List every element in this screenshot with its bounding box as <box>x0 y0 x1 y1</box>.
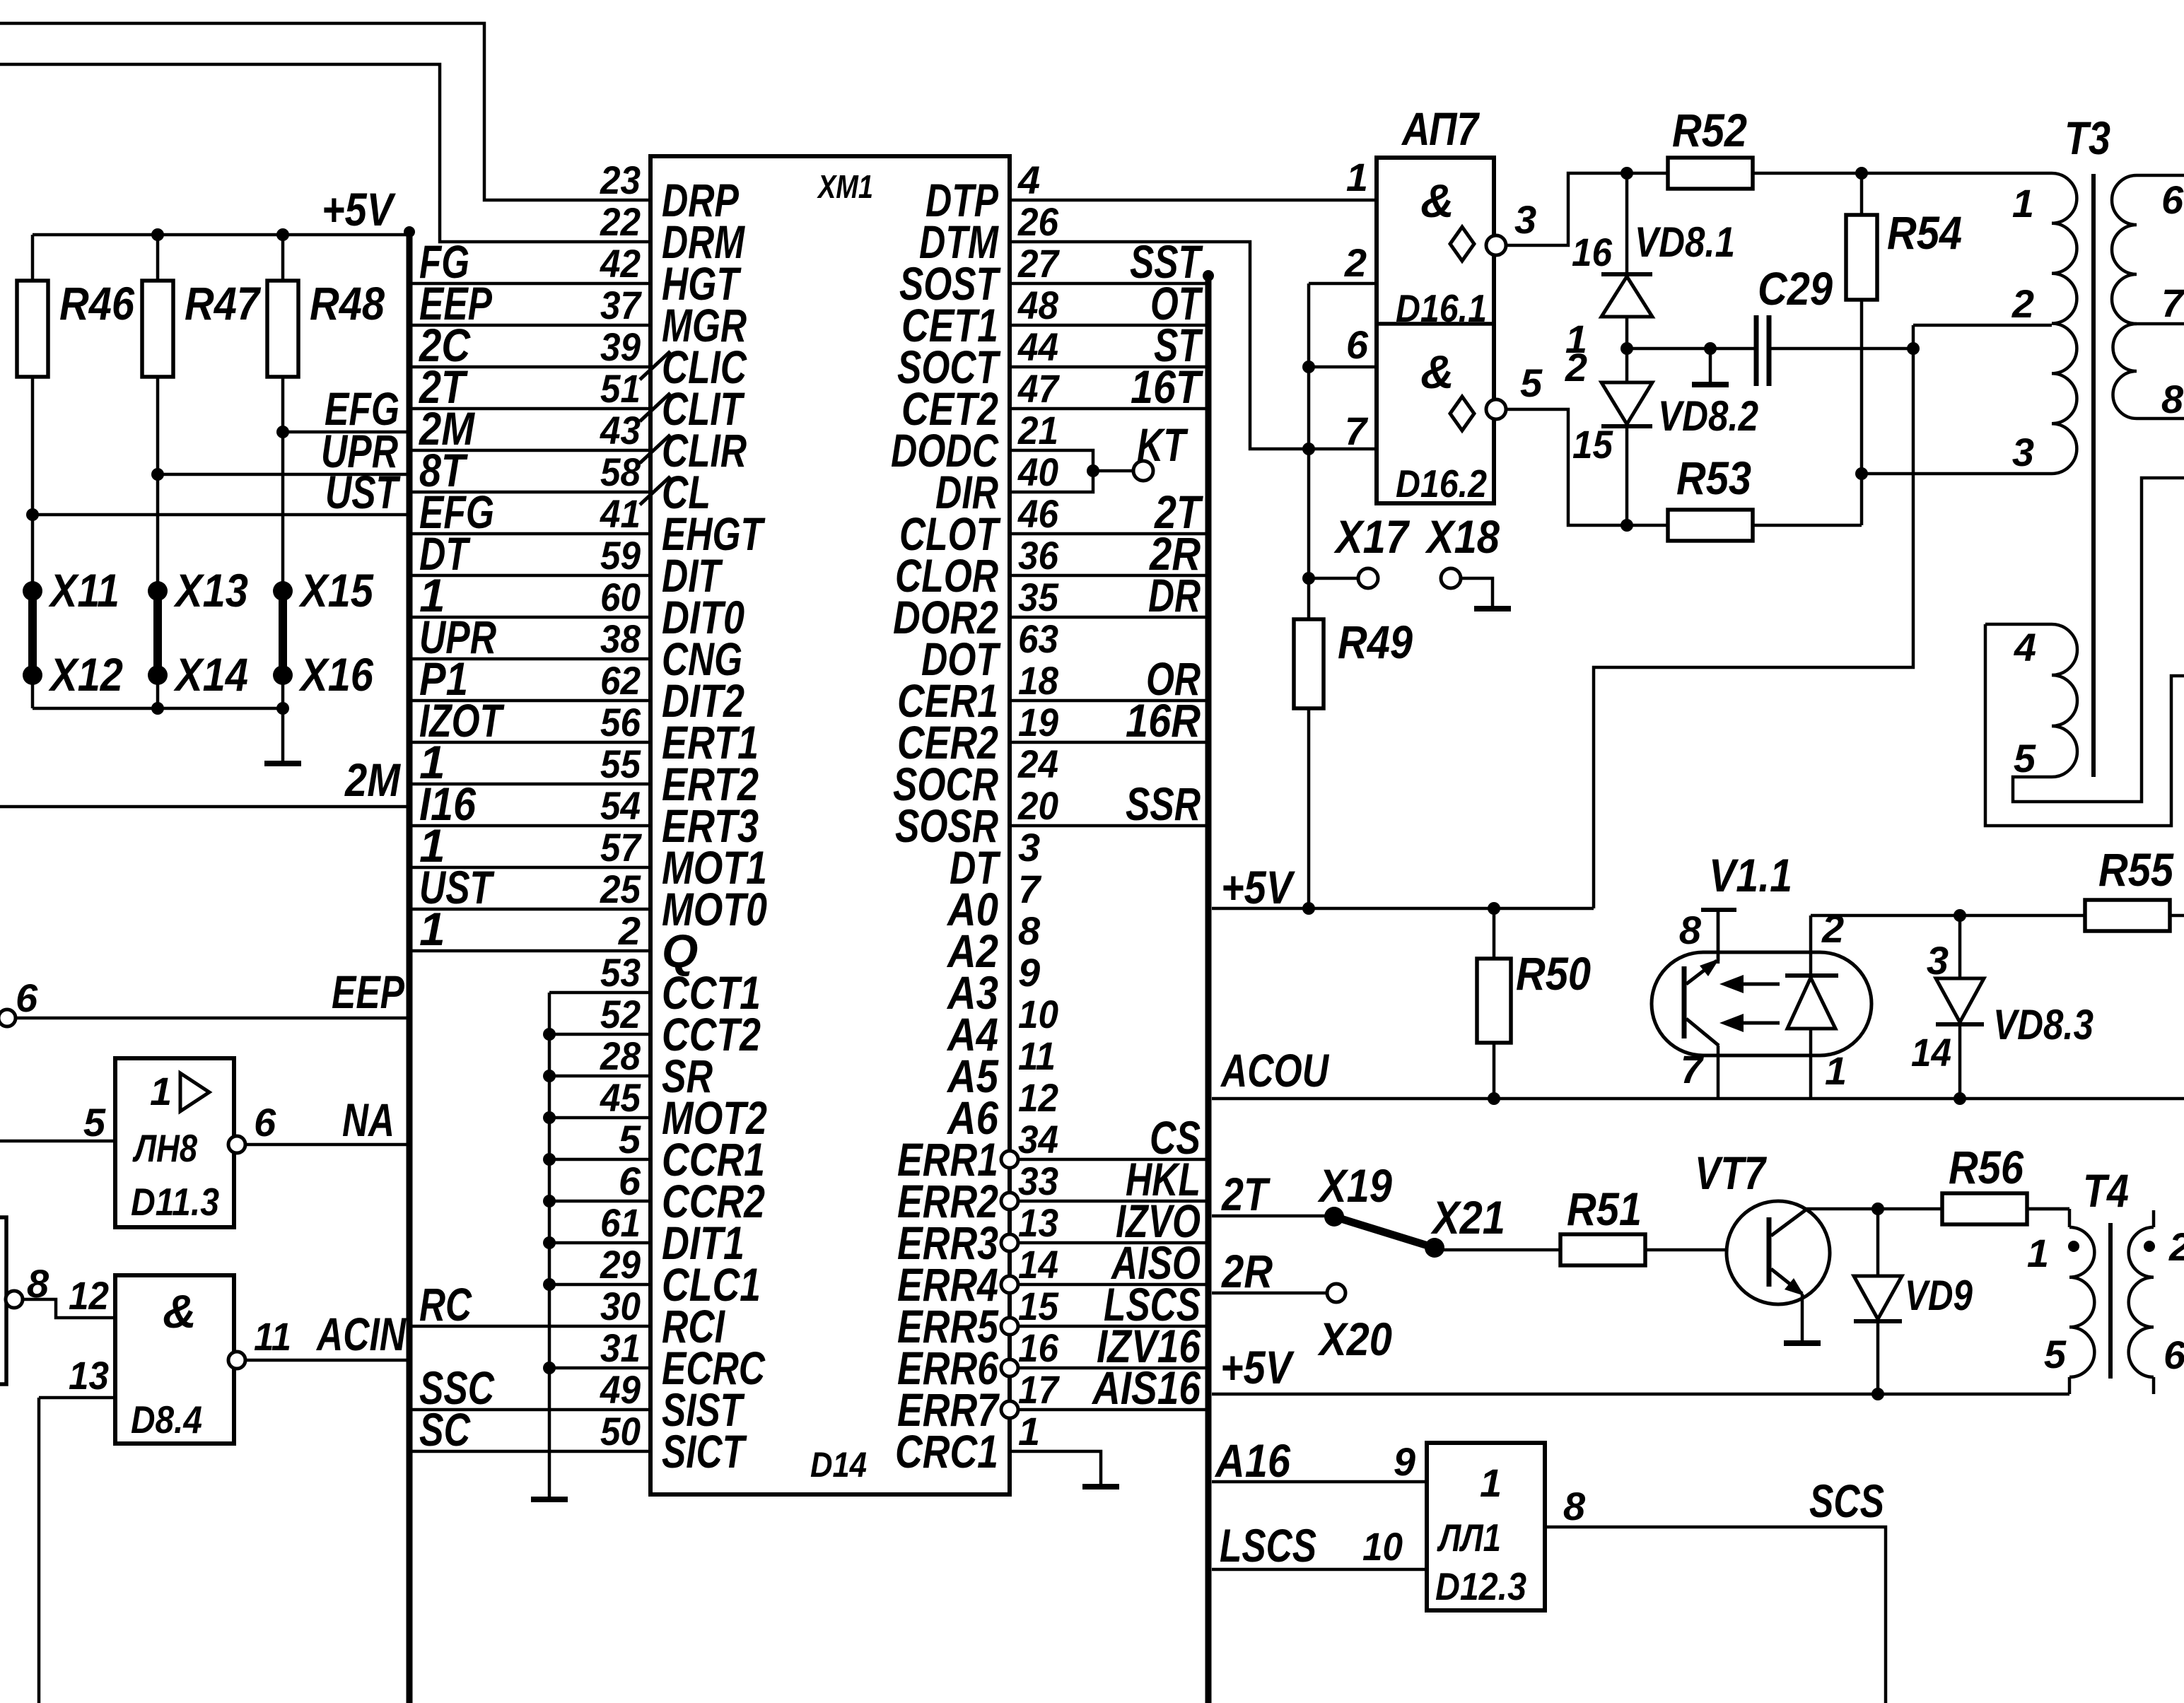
svg-text:19: 19 <box>1018 700 1058 744</box>
svg-text:21: 21 <box>1017 408 1058 452</box>
wire VT7 emitter to ground <box>1801 1294 1804 1341</box>
T3 winding 4-5 <box>1985 623 2052 626</box>
wire to R51 <box>1435 1248 1560 1252</box>
svg-text:26: 26 <box>1017 199 1059 244</box>
svg-text:1: 1 <box>1018 1409 1040 1453</box>
T4 core <box>2108 1223 2113 1379</box>
svg-text:28: 28 <box>600 1034 641 1078</box>
output circle D16.2 pin5 <box>1486 399 1506 419</box>
svg-text:R55: R55 <box>2098 843 2174 896</box>
svg-text:39: 39 <box>600 324 641 369</box>
svg-text:7: 7 <box>1345 409 1369 453</box>
switch lever X19-X21 <box>1334 1217 1435 1248</box>
svg-text:48: 48 <box>1017 283 1059 327</box>
svg-text:29: 29 <box>600 1242 641 1287</box>
svg-text:АП7: АП7 <box>1401 103 1480 155</box>
wire ERR1 row 34 to bus <box>1018 1158 1205 1161</box>
right bus <box>1205 272 1212 1703</box>
svg-text:D16.2: D16.2 <box>1396 462 1487 505</box>
svg-text:22: 22 <box>600 199 641 244</box>
ground at C29 node <box>1709 349 1712 382</box>
svg-text:R52: R52 <box>1672 104 1747 156</box>
wire D16.2 pin6 <box>1309 365 1377 369</box>
svg-text:2M: 2M <box>344 754 401 806</box>
svg-text:9: 9 <box>1394 1439 1415 1484</box>
jumper pin X19 <box>1324 1207 1344 1227</box>
svg-text:11: 11 <box>254 1314 291 1359</box>
wire R49 to +5V rail <box>1307 708 1311 908</box>
wire jumper bottoms <box>31 675 35 708</box>
svg-text:27: 27 <box>1017 241 1061 286</box>
junction <box>543 1195 556 1207</box>
wire ERR2 row 33 to bus <box>1018 1200 1205 1203</box>
wire row 49 from bus <box>412 1408 650 1412</box>
vertical net pin2/pin6/pin7/X17/R49 <box>1307 283 1311 619</box>
wire +5V rail <box>33 233 409 237</box>
svg-text:ЛН8: ЛН8 <box>132 1126 198 1170</box>
svg-text:6: 6 <box>2163 1333 2184 1377</box>
open pin X20 <box>1327 1284 1345 1302</box>
svg-text:3: 3 <box>1927 938 1949 983</box>
svg-text:2: 2 <box>1821 906 1844 951</box>
svg-text:46: 46 <box>1017 491 1059 536</box>
wire R47 lower <box>156 377 160 591</box>
wire row 35 to bus <box>1010 616 1205 619</box>
svg-text:5: 5 <box>1520 361 1543 405</box>
wire DTP row to D16.1 pin1 <box>1010 199 1377 202</box>
wire row 25 from bus <box>412 908 650 911</box>
connector pin 6 EEP <box>0 1009 16 1026</box>
inversion slash <box>640 351 670 380</box>
svg-text:49: 49 <box>600 1367 641 1412</box>
svg-text:T3: T3 <box>2065 112 2110 164</box>
wire 2T from bus <box>1212 1215 1334 1218</box>
wire ERR3 row 13 to bus <box>1018 1241 1205 1245</box>
T3 core <box>2091 174 2096 777</box>
svg-text:58: 58 <box>600 450 641 494</box>
svg-text:V1.1: V1.1 <box>1709 849 1792 901</box>
svg-text:X17: X17 <box>1333 510 1410 563</box>
wire row 52 short <box>549 1033 650 1036</box>
inversion circle ERR4 <box>1001 1276 1018 1293</box>
wire row 51 from bus <box>412 407 650 411</box>
svg-text:KT: KT <box>1137 419 1189 471</box>
wire row 42 from bus <box>412 282 650 286</box>
diode VD8.1 <box>1625 173 1629 274</box>
wire row 43 from bus <box>412 449 650 452</box>
output circle D8.4 pin 11 <box>228 1352 245 1369</box>
wire ERR7 row 17 to bus <box>1018 1408 1205 1412</box>
svg-text:R50: R50 <box>1516 947 1591 1000</box>
svg-text:R51: R51 <box>1567 1183 1642 1235</box>
svg-text:X18: X18 <box>1424 510 1500 563</box>
wire row 57 from bus <box>412 866 650 870</box>
junction <box>1621 167 1633 180</box>
svg-text:1: 1 <box>2027 1231 2049 1275</box>
junction <box>1871 1388 1884 1400</box>
svg-text:6: 6 <box>619 1159 641 1203</box>
svg-text:R46: R46 <box>59 277 135 329</box>
wire pin 13 <box>39 1396 115 1400</box>
svg-text:23: 23 <box>600 158 641 202</box>
svg-text:SSR: SSR <box>1126 778 1201 830</box>
junction <box>1954 1092 1966 1105</box>
inversion slash <box>640 393 670 421</box>
wire pin 8 to pin 12 <box>23 1299 115 1318</box>
junction <box>1871 1202 1884 1215</box>
wire A16 from bus <box>1212 1480 1427 1484</box>
inversion circle ERR7 <box>1001 1401 1018 1418</box>
svg-text:24: 24 <box>1017 742 1058 786</box>
junction <box>1855 467 1868 480</box>
svg-text:3: 3 <box>1514 197 1536 242</box>
svg-text:&: & <box>1420 175 1454 227</box>
wire up to pin3 node <box>1860 474 1864 525</box>
svg-text:40: 40 <box>1017 450 1058 494</box>
wire T3 pin6 <box>2137 174 2184 177</box>
svg-text:UST: UST <box>325 466 401 518</box>
svg-text:ACOU: ACOU <box>1220 1044 1329 1096</box>
svg-text:14: 14 <box>1911 1030 1951 1075</box>
wire R48 lower <box>281 377 285 591</box>
inversion slash <box>640 476 670 505</box>
svg-text:45: 45 <box>600 1075 641 1120</box>
wire R53 right <box>1753 524 1862 527</box>
svg-text:NA: NA <box>342 1094 395 1146</box>
junction <box>1907 342 1920 355</box>
svg-text:R47: R47 <box>185 277 262 329</box>
svg-text:R54: R54 <box>1887 206 1962 259</box>
svg-text:3: 3 <box>1018 825 1040 870</box>
svg-text:X12: X12 <box>47 648 123 701</box>
capacitor C29 <box>1754 315 1759 386</box>
svg-text:X21: X21 <box>1430 1191 1505 1243</box>
svg-text:56: 56 <box>600 700 641 744</box>
+5V terminal tick for pin 8 <box>1701 908 1736 912</box>
svg-text:D16.1: D16.1 <box>1396 286 1487 330</box>
svg-text:11: 11 <box>1018 1034 1056 1078</box>
svg-text:EEP: EEP <box>332 966 405 1018</box>
wire LSCS from bus <box>1212 1568 1427 1572</box>
junction <box>276 228 289 241</box>
transistor VT7 <box>1727 1201 1830 1304</box>
resistor R56 <box>1942 1193 2027 1224</box>
svg-text:1: 1 <box>1480 1461 1502 1505</box>
wire +5V from bus <box>1212 907 1594 911</box>
jumper pin X21 <box>1425 1238 1444 1258</box>
svg-text:VD9: VD9 <box>1905 1272 1973 1319</box>
svg-text:R48: R48 <box>310 277 385 329</box>
junction <box>1488 902 1500 915</box>
wire row 30 from bus <box>412 1325 650 1328</box>
svg-text:61: 61 <box>600 1200 641 1245</box>
jumper X15-X16 <box>273 581 293 601</box>
wire NA to bus <box>245 1143 409 1147</box>
svg-text:54: 54 <box>600 783 641 828</box>
junction <box>543 1028 556 1041</box>
wire EFG to bus <box>283 431 409 434</box>
gate D16.1/D16.2 body <box>1377 158 1494 503</box>
junction <box>543 1111 556 1124</box>
wire mid node to C29 <box>1627 347 1756 351</box>
svg-text:1: 1 <box>1825 1048 1847 1093</box>
wire R51 to VT7 base <box>1645 1248 1766 1252</box>
svg-text:63: 63 <box>1018 616 1058 661</box>
svg-text:43: 43 <box>600 408 641 452</box>
resistor R49 <box>1294 619 1324 708</box>
svg-text:DR: DR <box>1148 569 1201 621</box>
svg-text:2T: 2T <box>1220 1168 1271 1220</box>
resistor R52 <box>1668 158 1753 189</box>
svg-text:X20: X20 <box>1316 1313 1392 1365</box>
wire row 38 from bus <box>412 657 650 661</box>
svg-text:1: 1 <box>1346 155 1368 199</box>
svg-text:2: 2 <box>618 908 641 953</box>
light arrows <box>1729 983 1780 986</box>
wire row 29 short <box>549 1283 650 1287</box>
svg-text:38: 38 <box>600 616 641 661</box>
svg-text:X14: X14 <box>173 648 248 701</box>
wire D16.1 pin2 <box>1309 282 1377 286</box>
wire C29 right <box>1769 347 1913 351</box>
wire row 37 from bus <box>412 324 650 327</box>
svg-text:42: 42 <box>600 241 641 286</box>
svg-text:SICT: SICT <box>662 1425 747 1477</box>
svg-text:C29: C29 <box>1758 262 1833 315</box>
svg-text:3: 3 <box>2012 430 2034 474</box>
svg-text:33: 33 <box>1018 1159 1058 1203</box>
wire ACIN to bus <box>245 1359 409 1362</box>
optocoupler V1.1 capsule <box>1652 952 1871 1055</box>
wire DRM from sheet edge <box>0 64 650 242</box>
output circle of clipped gate pin 8 <box>6 1291 23 1308</box>
junction <box>543 1070 556 1082</box>
wire T3 pin7 <box>2137 322 2184 326</box>
wire row 59 from bus <box>412 574 650 578</box>
svg-text:41: 41 <box>600 491 641 536</box>
svg-text:20: 20 <box>1017 783 1058 828</box>
svg-text:X19: X19 <box>1316 1159 1392 1212</box>
phototransistor of V1.1 <box>1682 966 1687 1038</box>
LED of V1.1 <box>1809 915 1813 974</box>
inversion circle ERR5 <box>1001 1318 1018 1335</box>
resistor R53 <box>1668 510 1753 541</box>
svg-text:7: 7 <box>2161 281 2184 325</box>
svg-text:1: 1 <box>2012 181 2034 226</box>
wire row 47 to bus <box>1010 407 1205 411</box>
svg-text:5: 5 <box>83 1100 106 1145</box>
inversion circle ERR2 <box>1001 1193 1018 1210</box>
svg-text:R49: R49 <box>1338 616 1413 668</box>
svg-text:16: 16 <box>1018 1325 1059 1370</box>
diode VD8.3 <box>1958 915 1962 978</box>
wire VT7 collector node <box>1804 1207 2069 1211</box>
svg-text:SC: SC <box>419 1403 471 1456</box>
wire row 56 from bus <box>412 741 650 744</box>
wire pin2 node down to +5V <box>1594 325 1913 908</box>
IC D14 XM1 body <box>650 156 1010 1494</box>
wire pin13 down to sheet edge <box>37 1398 41 1703</box>
T3 secondary winding 7-8 <box>2113 324 2137 419</box>
junction <box>543 1278 556 1291</box>
wire DTM to D16.2 pin7 <box>1010 242 1377 449</box>
resistor R48 <box>281 235 285 281</box>
svg-text:&: & <box>1420 346 1454 398</box>
resistor R47 <box>156 235 160 281</box>
wire winding5 exit <box>2013 478 2184 802</box>
svg-text:35: 35 <box>1018 575 1059 619</box>
wire row 44 to bus <box>1010 365 1205 369</box>
svg-text:&: & <box>163 1285 197 1338</box>
wire row 53 short <box>549 991 650 995</box>
wire +5V lower from bus <box>1212 1393 2069 1396</box>
svg-text:5: 5 <box>619 1117 641 1161</box>
wire output 5 <box>1506 409 1668 525</box>
wire ERR5 row 15 to bus <box>1018 1325 1205 1328</box>
output circle D11.3 pin 6 <box>228 1136 245 1153</box>
svg-text:18: 18 <box>1018 658 1059 703</box>
svg-text:4: 4 <box>1017 158 1040 202</box>
svg-text:34: 34 <box>1018 1117 1058 1161</box>
junction <box>1855 167 1868 180</box>
wire UST to bus <box>33 513 409 517</box>
svg-text:16R: 16R <box>1126 694 1201 747</box>
svg-text:R56: R56 <box>1949 1141 2024 1193</box>
svg-text:44: 44 <box>1017 324 1058 369</box>
svg-text:2R: 2R <box>1220 1245 1273 1297</box>
svg-text:8: 8 <box>2161 377 2184 421</box>
wire pin 8 output to SCS <box>1545 1527 1886 1703</box>
test point X17 <box>1309 577 1358 580</box>
svg-text:36: 36 <box>1018 533 1059 578</box>
wire row 60 from bus <box>412 616 650 619</box>
svg-text:2: 2 <box>2168 1224 2184 1269</box>
svg-text:5: 5 <box>2014 736 2036 780</box>
svg-text:VT7: VT7 <box>1695 1147 1768 1199</box>
wire row 27 to bus <box>1010 282 1205 286</box>
inversion slash <box>640 435 670 463</box>
wire ERR6 row 16 to bus <box>1018 1367 1205 1370</box>
svg-text:47: 47 <box>1017 366 1061 411</box>
svg-text:X15: X15 <box>298 564 374 616</box>
jumper X13-X14 <box>148 581 168 601</box>
junction <box>151 228 164 241</box>
svg-text:6: 6 <box>254 1100 276 1145</box>
svg-text:8: 8 <box>1018 908 1041 953</box>
clipped gate at sheet edge <box>0 1217 6 1384</box>
svg-text:CRC1: CRC1 <box>895 1425 998 1477</box>
ground below pin column <box>531 1497 568 1502</box>
wire ACOU from bus <box>1212 1097 2184 1101</box>
svg-text:8: 8 <box>1563 1484 1586 1528</box>
wire row 36 to bus <box>1010 574 1205 578</box>
svg-text:57: 57 <box>600 825 643 870</box>
inversion circle ERR6 <box>1001 1359 1018 1376</box>
svg-text:6: 6 <box>2161 177 2184 222</box>
junction <box>543 1153 556 1166</box>
wire T3 pin8 <box>2137 417 2184 421</box>
T4 secondary winding <box>2152 1210 2156 1227</box>
svg-text:51: 51 <box>600 366 641 411</box>
svg-text:2: 2 <box>2011 281 2034 326</box>
svg-text:17: 17 <box>1018 1367 1061 1412</box>
wire row 18 to bus <box>1010 699 1205 703</box>
svg-text:6: 6 <box>1346 322 1369 367</box>
vertical to ground for pins 53-31 <box>548 993 551 1498</box>
resistor R54 <box>1860 173 1864 215</box>
wire row 6 short <box>549 1200 650 1203</box>
resistor R55 <box>2085 900 2170 931</box>
svg-text:62: 62 <box>600 658 641 703</box>
wire T3 pin2 <box>1913 324 2052 327</box>
svg-text:15: 15 <box>1572 422 1613 467</box>
wire row 55 from bus <box>412 783 650 786</box>
test point X18 with ground <box>1441 568 1461 588</box>
svg-text:T4: T4 <box>2083 1164 2129 1217</box>
svg-text:VD8.3: VD8.3 <box>1993 1001 2094 1048</box>
svg-text:D11.3: D11.3 <box>131 1180 219 1224</box>
svg-text:7: 7 <box>1018 867 1042 911</box>
svg-text:2: 2 <box>1344 240 1367 285</box>
wire row 41 from bus <box>412 532 650 536</box>
svg-text:6: 6 <box>16 976 38 1020</box>
wire R52 right <box>1753 172 2052 175</box>
resistor R46 <box>31 235 35 281</box>
svg-text:VD8.2: VD8.2 <box>1658 392 1758 440</box>
svg-text:4: 4 <box>2014 625 2036 669</box>
KT bracket pins 21/40 <box>1010 450 1093 492</box>
wire row 2 from bus <box>412 949 650 953</box>
junction <box>543 1236 556 1249</box>
wire row 58 from bus <box>412 491 650 494</box>
junction <box>1302 902 1315 915</box>
svg-text:+5V: +5V <box>1220 1341 1295 1393</box>
svg-text:55: 55 <box>600 742 641 786</box>
diode VD9 <box>1876 1209 1880 1276</box>
wire row 20 to bus <box>1010 824 1205 828</box>
wire input pin 5 D11.3 <box>0 1140 115 1143</box>
wire DRP from sheet edge <box>0 23 650 200</box>
left bus <box>407 228 413 1703</box>
wire row 54 from bus <box>412 824 650 828</box>
svg-text:16: 16 <box>1572 230 1613 274</box>
inverter D11.3 body <box>115 1058 234 1227</box>
svg-text:VD8.1: VD8.1 <box>1635 218 1735 266</box>
wire winding4 outer loop <box>1985 624 2184 826</box>
wire row 28 short <box>549 1075 650 1078</box>
svg-text:D12.3: D12.3 <box>1435 1564 1526 1608</box>
gate LL1 D12.3 body <box>1427 1443 1545 1610</box>
wire row 31 short <box>549 1367 650 1370</box>
T3 secondary winding 6-7 <box>2112 175 2137 324</box>
wire UPR to bus <box>158 473 409 476</box>
jumper X11-X12 <box>23 581 42 601</box>
wire T3 pin3 <box>1862 472 2052 476</box>
polarity dot T4 primary <box>2068 1241 2079 1252</box>
inversion circle ERR1 <box>1001 1151 1018 1168</box>
svg-text:SCS: SCS <box>1809 1475 1884 1527</box>
svg-text:8: 8 <box>27 1261 49 1306</box>
svg-text:16T: 16T <box>1131 361 1203 413</box>
svg-text:13: 13 <box>69 1353 109 1398</box>
wire 2R from bus <box>1212 1292 1327 1295</box>
svg-text:XM1: XM1 <box>817 168 873 205</box>
wire row 5 short <box>549 1158 650 1161</box>
wire row 45 short <box>549 1116 650 1120</box>
inversion circle ERR3 <box>1001 1234 1018 1251</box>
svg-text:15: 15 <box>1018 1284 1059 1328</box>
wire row 62 from bus <box>412 699 650 703</box>
